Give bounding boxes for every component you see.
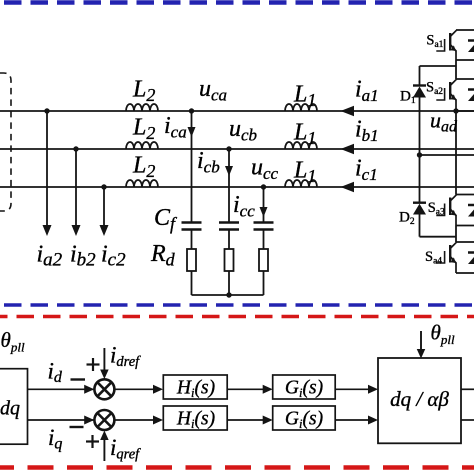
label i_qref: [110, 435, 141, 463]
wire: cap to damping resistor branch c: [263, 230, 265, 250]
diode across Sa1 (clipped at right edge): [468, 41, 474, 53]
label i_cb: [197, 148, 220, 177]
arrow: i_a2 direction: [43, 225, 52, 236]
wire: summer to Hi(s) (q): [114, 416, 163, 425]
dashed boundary: bottom edge of converter stage (blue): [0, 303, 474, 307]
svg-text:dq / αβ: dq / αβ: [390, 387, 449, 411]
wire: i_b2 measurement drop: [75, 149, 77, 227]
wire: cap to damping resistor branch b: [228, 230, 230, 250]
label D1: [400, 89, 416, 107]
capacitor Cf branch b: [219, 223, 239, 230]
transistor Sa2 (IGBT): [436, 79, 456, 111]
label L1 (row 3): [293, 158, 316, 187]
wire: Sa4 collector rail: [456, 241, 474, 243]
wire: column between Sa2 and Sa3: [455, 111, 457, 195]
diode D1: [413, 86, 426, 98]
wire: Sa2 emitter rail: [456, 110, 474, 112]
wire: i_a2 measurement drop: [46, 111, 48, 227]
inductor L1 (row 3): [285, 180, 317, 187]
wire: i_d signal: [28, 385, 95, 394]
label i_c2: [101, 242, 126, 271]
node u_ca tap: [189, 108, 194, 113]
arrow: i_b1 direction: [341, 144, 355, 155]
grid source (dashed rounded box, cut off at left): [0, 73, 11, 211]
label L1 (row 1): [293, 82, 316, 111]
wire: resistor to star point branch c: [263, 271, 265, 295]
node: tap of i_b2 branch: [73, 146, 78, 151]
label Sa3: [428, 200, 445, 218]
inductor L2 (row 1): [126, 104, 158, 111]
wire: Gi(s) to dq/ab block (d): [335, 385, 378, 394]
wire: filter branch a (cap feed): [191, 111, 193, 223]
wire: neutral rail: [420, 154, 474, 156]
wire: resistor to star point branch a: [191, 271, 193, 295]
transistor Sa3 (IGBT): [436, 195, 456, 226]
svg-text:Gi(s): Gi(s): [285, 408, 323, 431]
label Sa4: [425, 249, 442, 267]
label L2 (row 3): [132, 153, 155, 182]
arrow: i_cb direction: [225, 166, 233, 176]
label i_b1: [355, 117, 379, 146]
wire: summer to Hi(s) (d): [114, 385, 163, 394]
block Gi(s) (d): [273, 375, 336, 400]
node: neutral tap: [417, 152, 422, 157]
label u_ad: [430, 108, 458, 136]
wire: cap to damping resistor branch a: [191, 230, 193, 250]
label i_dref: [110, 343, 141, 371]
label i_a1: [355, 77, 379, 106]
wire: Sa1 collector rail: [456, 29, 474, 31]
dashed boundary: top edge of control stage (red): [0, 315, 474, 319]
block Hi(s) (d): [163, 375, 227, 400]
label u_cc: [251, 155, 279, 184]
node u_cb tap: [226, 146, 231, 151]
wire: column between Sa3 and Sa4: [455, 226, 457, 243]
label D2: [399, 210, 415, 228]
wire: theta_pll input to dq/ab block: [417, 331, 426, 359]
label Cf: [154, 205, 178, 234]
arrow: i_b2 direction: [72, 225, 81, 236]
wire: phase-c bus: [0, 186, 474, 188]
arrow: i_c2 direction: [100, 225, 109, 236]
capacitor Cf branch a: [182, 223, 202, 230]
wire: Hi(s) to Gi(s) (d): [227, 385, 273, 394]
wire: dq/ab output q: [461, 419, 474, 421]
wire: i_qref input: [100, 431, 109, 462]
wire: column between Sa1 and Sa2: [455, 60, 457, 79]
diode D2: [413, 203, 426, 215]
wire: resistor to star point branch b: [228, 271, 230, 295]
wire: clamp bottom link: [420, 236, 457, 238]
node: u_ad phase output: [453, 108, 458, 113]
resistor Rd branch c: [259, 249, 268, 271]
wire: Sa3 emitter rail: [456, 225, 474, 227]
summing junction (d-axis): [94, 379, 114, 399]
wire: Sa3 collector rail: [456, 194, 474, 196]
label theta_pll (left): [1, 328, 25, 355]
diode across Sa2 (clipped at right edge): [468, 90, 474, 102]
label L2 (row 2): [132, 115, 155, 144]
wire: Sa4 emitter rail: [456, 272, 474, 274]
label i_d: [48, 359, 63, 387]
node: star point: [226, 292, 231, 297]
label i_a2: [37, 242, 63, 271]
dashed boundary: top edge of converter stage (blue): [0, 0, 474, 4]
block Hi(s) (q): [163, 406, 227, 431]
resistor Rd branch a: [187, 249, 196, 271]
wire: filter star-point rail: [192, 294, 264, 296]
label theta_pll (right): [431, 321, 455, 348]
wire: phase-a bus: [0, 110, 474, 112]
transistor Sa4 (IGBT): [436, 242, 456, 273]
wire: dq/ab output d: [461, 388, 474, 390]
label Sa1: [426, 32, 443, 50]
label minus (q-axis): [70, 426, 84, 428]
svg-text:Hi(s): Hi(s): [176, 408, 215, 431]
inductor L2 (row 3): [126, 180, 158, 187]
label L2 (row 1): [132, 77, 155, 106]
node: tap of i_c2 branch: [101, 184, 106, 189]
wire: Sa2 collector rail: [456, 78, 474, 80]
resistor Rd branch b: [225, 249, 234, 271]
arrow: i_ca direction: [188, 127, 196, 137]
wire: Hi(s) to Gi(s) (q): [227, 416, 273, 425]
label u_ca: [199, 76, 227, 105]
wire: i_c2 measurement drop: [103, 187, 105, 227]
node: tap of i_a2 branch: [44, 108, 49, 113]
summing junction (q-axis): [94, 410, 114, 430]
svg-text:dq: dq: [0, 398, 20, 420]
inductor L2 (row 2): [126, 142, 158, 149]
block dq/alpha-beta transform: [378, 358, 461, 443]
block Gi(s) (q): [273, 406, 336, 431]
wire: clamp column upper: [419, 66, 421, 86]
wire: clamp top link: [420, 65, 457, 67]
block abc/dq transform (cut off at left): [0, 369, 28, 445]
label plus (d-axis): [87, 358, 100, 371]
label minus (d-axis): [71, 378, 86, 380]
label L1 (row 2): [293, 120, 316, 149]
diode across Sa3 (clipped at right edge): [468, 205, 474, 217]
diode across Sa4 (clipped at right edge): [468, 253, 474, 265]
wire: filter branch b (cap feed): [228, 149, 230, 223]
capacitor Cf branch c: [254, 223, 274, 230]
label plus (q-axis): [86, 435, 99, 448]
arrow: i_a1 direction: [341, 106, 355, 117]
dashed boundary: bottom edge of control stage (red): [0, 465, 474, 470]
transistor Sa1 (IGBT): [436, 30, 456, 60]
label Rd: [150, 241, 176, 270]
wire: phase-b bus: [0, 148, 474, 150]
wire: i_q signal: [28, 416, 95, 425]
node u_cc tap: [261, 184, 266, 189]
label i_c1: [355, 156, 378, 185]
label i_q: [48, 425, 62, 453]
label i_ca: [164, 113, 187, 142]
svg-text:Hi(s): Hi(s): [176, 377, 215, 400]
wire: Sa1 emitter rail: [456, 59, 474, 61]
wire: i_dref input: [100, 348, 109, 379]
arrow: i_c1 direction: [341, 182, 355, 193]
inductor L1 (row 1): [285, 104, 317, 111]
inductor L1 (row 2): [285, 142, 317, 149]
svg-text:Gi(s): Gi(s): [285, 377, 323, 400]
label i_b2: [70, 242, 96, 271]
wire: clamp column lower: [419, 215, 421, 237]
wire: filter branch c (cap feed): [263, 187, 265, 223]
arrow: i_cc direction: [260, 207, 268, 217]
label u_cb: [229, 116, 257, 145]
label i_cc: [233, 192, 255, 221]
wire: Gi(s) to dq/ab block (q): [335, 416, 378, 425]
label Sa2: [426, 80, 443, 98]
wire: clamp column middle: [419, 98, 421, 203]
